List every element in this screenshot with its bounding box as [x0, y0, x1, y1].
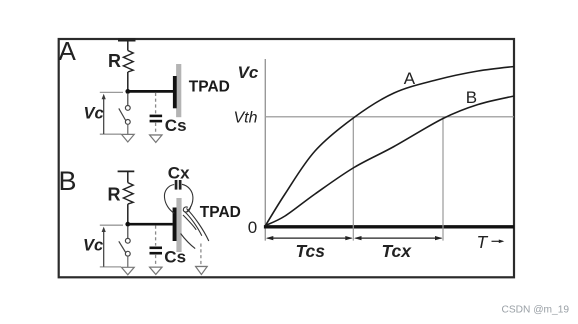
svg-text:Vc: Vc: [84, 105, 104, 123]
svg-text:Tcs: Tcs: [296, 241, 326, 261]
axis label Vth: [234, 109, 258, 126]
svg-text:0: 0: [248, 218, 257, 237]
wire (node to switch, circuit B): [127, 226, 129, 238]
axis label Vc: [238, 63, 259, 82]
capacitor Cx plates (circuit B): [175, 180, 182, 190]
node junction dot (circuit B): [125, 222, 130, 227]
coupling loop through Cx (circuit B): [164, 184, 192, 213]
vertical marker line at Tcs+Tcx (curve B crossing): [442, 117, 444, 241]
wire (dashed, finger to ground, circuit B): [200, 244, 202, 267]
value label Cx (circuit B): [168, 163, 190, 182]
svg-text:Vth: Vth: [234, 109, 258, 126]
ground (Cs, circuit B): [149, 267, 162, 274]
TPAD pad bar gray (circuit B): [176, 198, 181, 252]
curve label A: [404, 69, 416, 88]
switch (circuit A): [119, 106, 130, 125]
svg-text:Cx: Cx: [168, 163, 190, 182]
svg-text:B: B: [59, 166, 77, 196]
label B (circuit B): [59, 166, 77, 196]
svg-text:CSDN @m_19: CSDN @m_19: [502, 305, 570, 316]
supply rail tick (circuit B): [118, 170, 135, 172]
svg-text:Tcx: Tcx: [382, 241, 413, 261]
interval arrow Tcx (double headed): [354, 236, 443, 240]
chart Y axis: [264, 59, 266, 241]
watermark CSDN: [502, 305, 570, 316]
wire (supply to resistor R, circuit B): [127, 171, 129, 182]
curve label B: [466, 88, 477, 107]
svg-text:Vc: Vc: [83, 237, 103, 255]
resistor R (circuit A): [123, 51, 133, 73]
axis label T with arrow: [477, 232, 505, 252]
ground (finger, circuit B): [195, 267, 207, 275]
capacitor Cs (circuit A): [150, 115, 163, 123]
ground (switch, circuit B): [122, 267, 135, 275]
threshold line Vth: [266, 116, 514, 118]
wire (node to TPAD electrode, circuit B, thick): [128, 223, 173, 226]
resistor R (circuit B): [123, 183, 133, 205]
node junction dot (circuit A): [125, 89, 130, 94]
Vc measurement bracket (circuit A): [100, 92, 123, 134]
interval label Tcs: [296, 241, 326, 261]
wire (resistor to node, circuit A): [127, 72, 129, 92]
svg-text:Cs: Cs: [164, 248, 186, 267]
label TPAD (circuit B): [200, 204, 241, 221]
label Vc (circuit B): [83, 237, 103, 255]
TPAD electrode bar black (circuit B): [173, 208, 177, 242]
svg-text:B: B: [466, 88, 477, 107]
curve B (charging with Cs + Cx): [266, 96, 515, 226]
wire (dashed, node wire to Cs, circuit B): [155, 226, 157, 246]
interval arrow Tcs (double headed): [266, 236, 353, 240]
wire (switch to ground, circuit A): [127, 124, 129, 134]
interval label Tcx: [382, 241, 413, 261]
value label Cs (circuit A): [165, 116, 187, 135]
finger field line strokes (circuit B): [181, 209, 209, 249]
figure border frame: [59, 39, 514, 277]
svg-text:Cs: Cs: [165, 116, 187, 135]
ground (switch, circuit A): [122, 134, 135, 142]
svg-text:TPAD: TPAD: [200, 204, 241, 221]
wire (dashed, node wire to Cs, circuit A): [155, 93, 157, 114]
svg-text:A: A: [59, 36, 77, 66]
value label Cs (circuit B): [164, 248, 186, 267]
TPAD pad bar gray (circuit A): [176, 64, 181, 117]
curve A (charging with Cs only): [266, 67, 515, 226]
value label R (circuit A): [108, 51, 121, 71]
svg-text:A: A: [404, 69, 416, 88]
TPAD electrode bar black (circuit A): [173, 76, 177, 108]
label Vc (circuit A): [84, 105, 104, 123]
ground (Cs, circuit A): [149, 135, 162, 142]
value label R (circuit B): [108, 185, 121, 205]
vertical marker line at Tcs (curve A crossing): [352, 117, 354, 241]
wire (node to TPAD electrode, circuit A, thick): [128, 90, 173, 93]
label TPAD (circuit A): [189, 78, 230, 95]
wire (supply to resistor R, circuit A): [127, 40, 129, 51]
wire (switch to ground, circuit B): [127, 256, 129, 267]
svg-text:T: T: [477, 232, 489, 252]
chart X axis: [264, 225, 514, 228]
supply rail tick (circuit A, on top border): [118, 38, 136, 41]
finger curl touching TPAD (circuit B): [183, 206, 191, 212]
wire (dashed, Cs to ground, circuit A): [155, 123, 157, 135]
label A (circuit A): [59, 36, 77, 66]
svg-text:TPAD: TPAD: [189, 78, 230, 95]
wire (dashed, Cs to ground, circuit B): [155, 255, 157, 267]
svg-text:Vc: Vc: [238, 63, 259, 82]
origin label 0: [248, 218, 257, 237]
Vc measurement bracket (circuit B): [100, 225, 123, 267]
svg-text:R: R: [108, 51, 121, 71]
wire (node to switch, circuit A): [127, 93, 129, 106]
wire (resistor to node, circuit B): [127, 204, 129, 224]
svg-text:R: R: [108, 185, 121, 205]
capacitor Cs (circuit B): [150, 247, 163, 255]
switch (circuit B): [119, 238, 130, 256]
